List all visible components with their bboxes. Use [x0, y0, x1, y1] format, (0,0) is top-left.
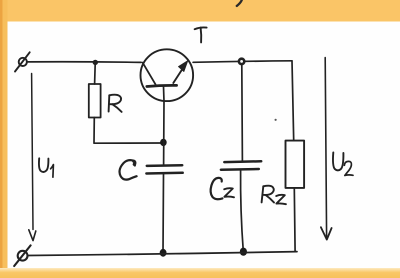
ink speck	[275, 119, 277, 121]
capacitor C2 plate top	[224, 160, 261, 163]
wire C2 top	[241, 65, 244, 162]
node collector ring	[239, 59, 244, 64]
transistor T circle	[141, 49, 194, 101]
label Cz: C	[211, 178, 223, 199]
node C junction	[160, 139, 167, 146]
capacitor C2 plate bottom	[221, 168, 259, 171]
label Rz: R	[262, 186, 274, 203]
resistor R	[89, 84, 101, 118]
wire C2 bottom	[241, 170, 244, 252]
node bottom C2	[240, 248, 247, 256]
wire R2 top	[292, 61, 294, 141]
wire R top	[94, 64, 97, 85]
voltage arrow U1 head	[29, 230, 36, 241]
wire collector rail right	[193, 61, 292, 63]
node base junction	[93, 60, 98, 65]
wire R2 bottom	[293, 188, 296, 252]
resistor R2	[286, 141, 305, 188]
wire R bottom L-shape	[94, 118, 161, 144]
capacitor C plate top	[147, 164, 182, 167]
transistor emitter arrow shaft	[173, 65, 185, 83]
voltage arrow U1 shaft	[32, 74, 33, 230]
label Cz: z subscript	[224, 188, 234, 197]
transistor emitter bar	[147, 85, 177, 86]
wire top rail left	[27, 61, 141, 64]
voltage arrow U2 head	[321, 227, 332, 239]
wire transistor bottom to capacitor C	[163, 102, 165, 166]
transistor emitter arrowhead	[178, 61, 188, 72]
label Rz: z subscript	[276, 195, 286, 204]
label T	[195, 27, 207, 42]
wire bottom rail	[27, 252, 297, 256]
node bottom C	[160, 249, 167, 257]
label C script	[120, 160, 137, 180]
label U1	[39, 158, 53, 177]
capacitor C plate bottom	[146, 172, 182, 175]
wire C bottom	[162, 174, 165, 253]
transistor base slant line	[143, 63, 156, 85]
label R	[109, 95, 122, 112]
voltage arrow U2 shaft	[325, 58, 326, 238]
terminal bottom-left	[14, 245, 30, 266]
label U2	[333, 152, 353, 175]
stray comma mark in top border	[237, 0, 242, 6]
terminal top-left	[15, 52, 30, 71]
transistor bar stem	[163, 87, 166, 102]
